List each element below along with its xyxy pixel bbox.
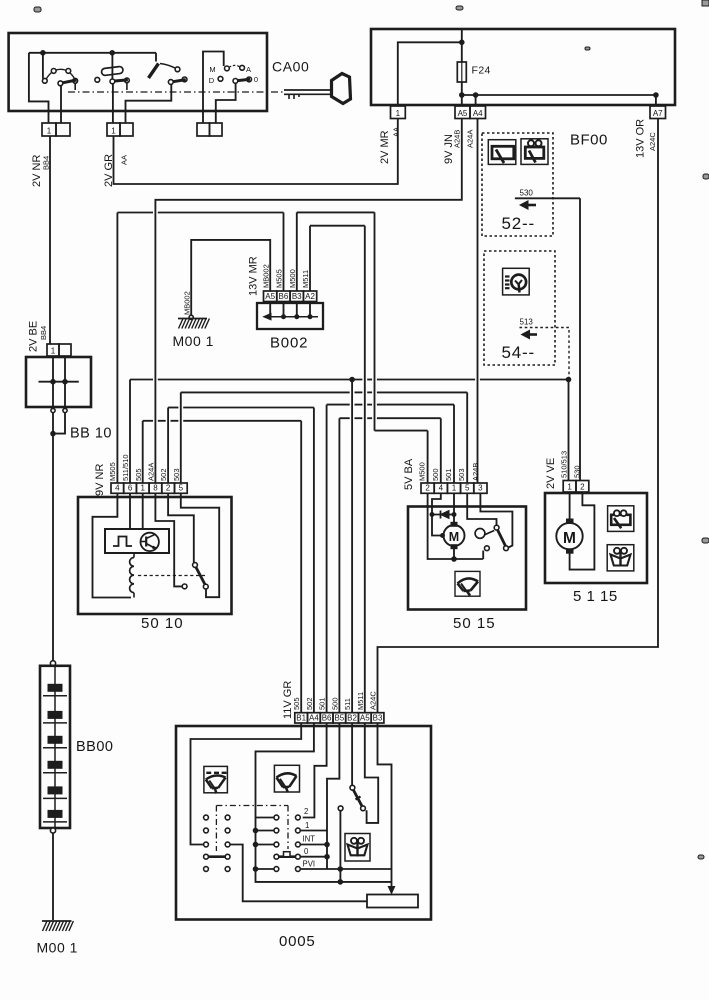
switch pole 1 (42, 53, 44, 79)
battery BB00 (50, 661, 55, 666)
wire A24A (fuse A4 to motor 5015 pin 3) (477, 119, 479, 484)
wire M511 (B002 A2 to 0005 A5) (309, 226, 311, 291)
selector bridge with slider (279, 855, 296, 858)
svg-text:M511: M511 (356, 692, 365, 710)
wire 502 (5010 p2 to 0005 A4) (167, 408, 169, 484)
svg-text:INT: INT (303, 835, 316, 844)
switch pole 2 (111, 55, 113, 79)
wire pin4 through diode (432, 493, 441, 514)
pin A5 (455, 106, 470, 119)
connector B002 pins A5 B6 B3 A2 (264, 291, 277, 302)
svg-text:M500: M500 (288, 269, 297, 288)
svg-text:2: 2 (304, 807, 308, 816)
svg-text:5V BA: 5V BA (403, 458, 415, 490)
wire node to motor left brush (432, 515, 444, 536)
square-wave symbol (113, 537, 132, 547)
wire 511/510 net (5010 p6 / 0005 B2 / 5115 p1 / unit 54) (129, 380, 131, 484)
selector rail taps INT 0 PVI (300, 844, 327, 846)
svg-text:M511: M511 (301, 270, 310, 288)
wire 500 (0005 B5 to 5015 p4) (338, 418, 340, 713)
icon: rear window wiper (521, 139, 548, 165)
wire pin1 to timer (142, 493, 144, 529)
wire PVI row (300, 868, 338, 870)
svg-text:AA: AA (392, 127, 401, 137)
svg-text:A5: A5 (458, 109, 468, 118)
pump motor M (556, 523, 582, 549)
svg-text:511/510: 511/510 (121, 454, 130, 481)
svg-text:A5: A5 (360, 713, 370, 722)
svg-text:A24A: A24A (147, 463, 156, 481)
svg-text:2V BE: 2V BE (28, 321, 40, 352)
svg-text:CA00: CA00 (272, 59, 309, 75)
svg-text:MB002: MB002 (183, 291, 192, 315)
switch pole 4 (key positions M A D 0) (203, 52, 224, 124)
motor M (444, 525, 465, 546)
svg-text:505: 505 (292, 697, 301, 710)
svg-text:13V MR: 13V MR (248, 256, 260, 296)
mechanical link line (key shaft axis) (68, 91, 283, 93)
icon: rear washer (608, 506, 634, 532)
transistor symbol (141, 533, 159, 551)
junction node on bus (pole 2) (110, 51, 115, 56)
fuse F24 (457, 62, 466, 82)
svg-text:B3: B3 (373, 713, 383, 722)
wire 501 (0005 B6 to 5015 p1) (326, 405, 328, 713)
wire pin2 to motor circuit (428, 493, 484, 559)
junction node on bus (pole 1) (41, 51, 46, 56)
wire pin3 to park switch (480, 493, 512, 547)
key symbol (284, 89, 331, 91)
svg-text:M: M (449, 530, 459, 544)
wire A24C (fuse A7 to 0005 B3) (378, 119, 659, 713)
wire pin8 to contact (155, 493, 182, 586)
svg-text:501: 501 (444, 468, 453, 481)
svg-text:0: 0 (304, 847, 309, 856)
selector wafer contacts (274, 815, 300, 871)
svg-text:M505: M505 (275, 269, 284, 288)
svg-text:A2: A2 (305, 292, 315, 301)
icon: wiper (5015) (455, 571, 480, 596)
wire B5 to position 1 contact and rail (327, 723, 339, 869)
svg-text:2V VE: 2V VE (545, 458, 557, 489)
svg-text:B6: B6 (279, 292, 289, 301)
svg-text:530: 530 (573, 465, 582, 478)
wire 2V MR inside fuse box (398, 42, 462, 105)
washer pump 5115 body (545, 493, 647, 583)
rail taps to wafer contacts (256, 817, 274, 819)
svg-text:3: 3 (478, 484, 483, 493)
timer module box (105, 529, 169, 553)
wire A5 to washer switch blade (365, 723, 378, 823)
svg-text:MB002: MB002 (262, 264, 271, 288)
wire pin5 to contact (181, 493, 219, 597)
svg-text:D: D (209, 76, 215, 85)
wire MB002 to earth (191, 240, 270, 318)
unit 52 dashed box (482, 133, 553, 236)
svg-text:50 10: 50 10 (141, 615, 184, 632)
wiper motor 5015 pin row 2 4 1 5 3 (421, 483, 434, 493)
svg-text:B5: B5 (334, 713, 344, 722)
switch 0005 body (176, 726, 431, 920)
switch pole 3 (155, 53, 157, 62)
svg-text:500: 500 (330, 697, 339, 710)
svg-text:1: 1 (141, 484, 146, 493)
icon: washer (0005) (345, 834, 370, 862)
svg-text:5 1 15: 5 1 15 (573, 588, 618, 605)
washer switch fixed contact (338, 806, 343, 811)
svg-text:1: 1 (47, 126, 52, 135)
svg-text:A24C: A24C (648, 132, 657, 151)
arrow into resistor (388, 887, 394, 894)
fuse feed wire (461, 29, 463, 105)
wire M505 (B002 B6 to 5010 pin 4) (283, 213, 285, 292)
wire pin5 to park switch pivot (467, 493, 496, 525)
svg-text:A24B: A24B (471, 463, 480, 481)
svg-text:B002: B002 (270, 335, 308, 352)
svg-text:501: 501 (318, 697, 327, 710)
wire B6 to position 2 contact (303, 723, 327, 818)
relay coil (133, 553, 135, 558)
relay contact blade (196, 567, 205, 584)
wire pin1 to pump motor (569, 492, 571, 519)
svg-text:54--: 54-- (502, 343, 535, 362)
earth M001 (battery) (42, 921, 73, 931)
svg-text:A24C: A24C (369, 691, 378, 710)
svg-text:B1: B1 (296, 713, 306, 722)
connector 2V BE (47, 344, 59, 356)
svg-text:AA: AA (120, 155, 129, 165)
washer pump 5115 pin row 1 2 (563, 481, 576, 493)
wafer bridge (208, 855, 225, 858)
svg-text:2: 2 (580, 482, 585, 491)
svg-text:6: 6 (128, 484, 133, 493)
svg-text:1: 1 (452, 484, 457, 493)
icon: windscreen wiper (488, 140, 516, 165)
wire 503 (5010 p5 to 5015 p5) (180, 392, 182, 483)
wire A4 common rail (256, 723, 339, 882)
svg-text:A5: A5 (265, 292, 275, 301)
wire 2V GR (ignition to fuse box pin 1) (114, 119, 398, 185)
wire B1 to wash/wipe wafer (191, 723, 302, 845)
connector block 2V GR (pin 1) (107, 123, 120, 136)
svg-text:PVI: PVI (303, 860, 316, 869)
svg-text:530: 530 (520, 189, 534, 198)
svg-text:2: 2 (166, 484, 171, 493)
svg-text:52--: 52-- (502, 214, 535, 233)
arrow on wire 513 (523, 333, 537, 336)
connector block 2V NR (pin 1) (42, 123, 56, 136)
wire M500 (B002 B3 to 5015 pin 2) (296, 212, 298, 291)
wire to pin A7 (655, 95, 657, 105)
svg-text:M500: M500 (418, 462, 427, 481)
svg-text:511: 511 (343, 698, 352, 710)
wire pin2 around motor (570, 492, 595, 570)
diode (441, 511, 450, 519)
connector block (third, unlabelled) (197, 123, 210, 136)
cam follower symbol (475, 529, 485, 539)
icon: rear wiper intermittent (204, 766, 228, 792)
svg-text:BB00: BB00 (76, 739, 113, 755)
svg-text:F24: F24 (472, 65, 491, 77)
wiper motor 5015 body (408, 507, 526, 610)
wire wafer to resistor (230, 845, 367, 902)
svg-text:M00 1: M00 1 (37, 940, 78, 956)
svg-text:1: 1 (305, 821, 309, 830)
B002 internal bus with pin stubs (269, 302, 271, 317)
svg-text:503: 503 (457, 468, 466, 481)
svg-text:A24A: A24A (466, 130, 475, 148)
svg-text:50 15: 50 15 (453, 615, 496, 632)
svg-text:2: 2 (425, 484, 430, 493)
svg-text:A4: A4 (309, 713, 319, 722)
arrow on wire 530 (522, 204, 537, 207)
wire pin6 to timer (129, 493, 131, 529)
wire B2 to washer switch (351, 723, 353, 785)
icon: headlamp washer (503, 268, 530, 295)
junction node (460, 40, 465, 45)
svg-text:B6: B6 (322, 713, 332, 722)
svg-text:BB4: BB4 (39, 326, 48, 340)
wire A24B (fuse A5 to relay 5010 pin 8) (155, 119, 461, 484)
svg-text:5: 5 (179, 484, 184, 493)
pin A4 (470, 106, 486, 119)
svg-text:13V OR: 13V OR (635, 119, 647, 158)
svg-text:510/513: 510/513 (560, 451, 569, 478)
icon: windscreen washer (607, 545, 634, 571)
svg-text:503: 503 (172, 468, 181, 481)
pin A7 (650, 106, 666, 119)
wire: internal supply bus (29, 52, 156, 54)
relay 5010 body (78, 497, 232, 614)
svg-text:M: M (563, 530, 576, 547)
wire pin2 to contact blade pivot (168, 493, 194, 562)
wire 505 (5010 p1 to 0005 B1) (142, 421, 144, 483)
svg-text:4: 4 (439, 484, 444, 493)
connector B002 body (257, 303, 323, 329)
wire B3 feed (378, 723, 392, 889)
mechanical links (dash-dot) (216, 805, 288, 807)
wire pin4 to coil bottom (93, 493, 132, 597)
svg-text:2V MR: 2V MR (379, 130, 391, 164)
earth M001 (near B002) (178, 319, 209, 329)
svg-text:1: 1 (396, 109, 401, 118)
wires BB10 to battery (52, 413, 54, 661)
svg-text:500: 500 (431, 468, 440, 481)
wire to pin A4 (475, 95, 477, 105)
relay 5010 pin row 4 6 1 8 2 5 (111, 483, 124, 493)
ballast resistor (367, 895, 418, 908)
relay actuation dashed link (138, 575, 207, 577)
switch 0005 pin row B1 A4 B6 B5 B2 A5 B3 (295, 713, 308, 723)
svg-text:BF00: BF00 (570, 132, 608, 149)
fuse box (top right) (371, 29, 675, 105)
wire: fused output bus (462, 94, 656, 96)
wire 530 (unit 52 to pump 5115 pin 2) (579, 198, 581, 480)
svg-text:M: M (209, 65, 215, 74)
svg-text:A24B: A24B (453, 130, 462, 148)
svg-text:0: 0 (254, 75, 258, 84)
svg-text:8: 8 (153, 484, 158, 493)
wire pin1 to node (453, 493, 455, 525)
svg-text:B2: B2 (347, 713, 357, 722)
svg-text:502: 502 (305, 697, 314, 710)
svg-text:0005: 0005 (279, 933, 316, 950)
svg-text:9V NR: 9V NR (94, 464, 106, 496)
svg-text:513: 513 (520, 318, 534, 327)
wash/wipe wafer contacts (204, 815, 230, 871)
svg-text:1: 1 (51, 346, 56, 355)
svg-text:1: 1 (567, 482, 572, 491)
svg-text:M00 1: M00 1 (173, 333, 214, 349)
svg-text:M505: M505 (108, 462, 117, 481)
icon: windscreen wiper (0005) (274, 765, 299, 792)
svg-text:505: 505 (134, 468, 143, 481)
svg-text:1: 1 (111, 126, 116, 135)
svg-text:4: 4 (115, 484, 120, 493)
svg-text:5: 5 (465, 484, 470, 493)
pin 1 (2V MR) (391, 106, 406, 119)
svg-text:502: 502 (159, 468, 168, 481)
wire 2V NR (ignition to BB10) (49, 136, 51, 344)
wire battery to earth (52, 833, 54, 920)
junction unit BB10 (26, 357, 91, 407)
svg-text:A4: A4 (473, 109, 483, 118)
ignition switch CA00 box (9, 33, 267, 111)
svg-text:B3: B3 (292, 292, 302, 301)
svg-text:BB 10: BB 10 (70, 426, 112, 442)
washer switch blade (353, 790, 362, 806)
svg-text:A: A (246, 65, 251, 74)
unit 54 dashed box (484, 251, 555, 365)
svg-text:A7: A7 (653, 109, 663, 118)
park switch blade (498, 530, 506, 546)
